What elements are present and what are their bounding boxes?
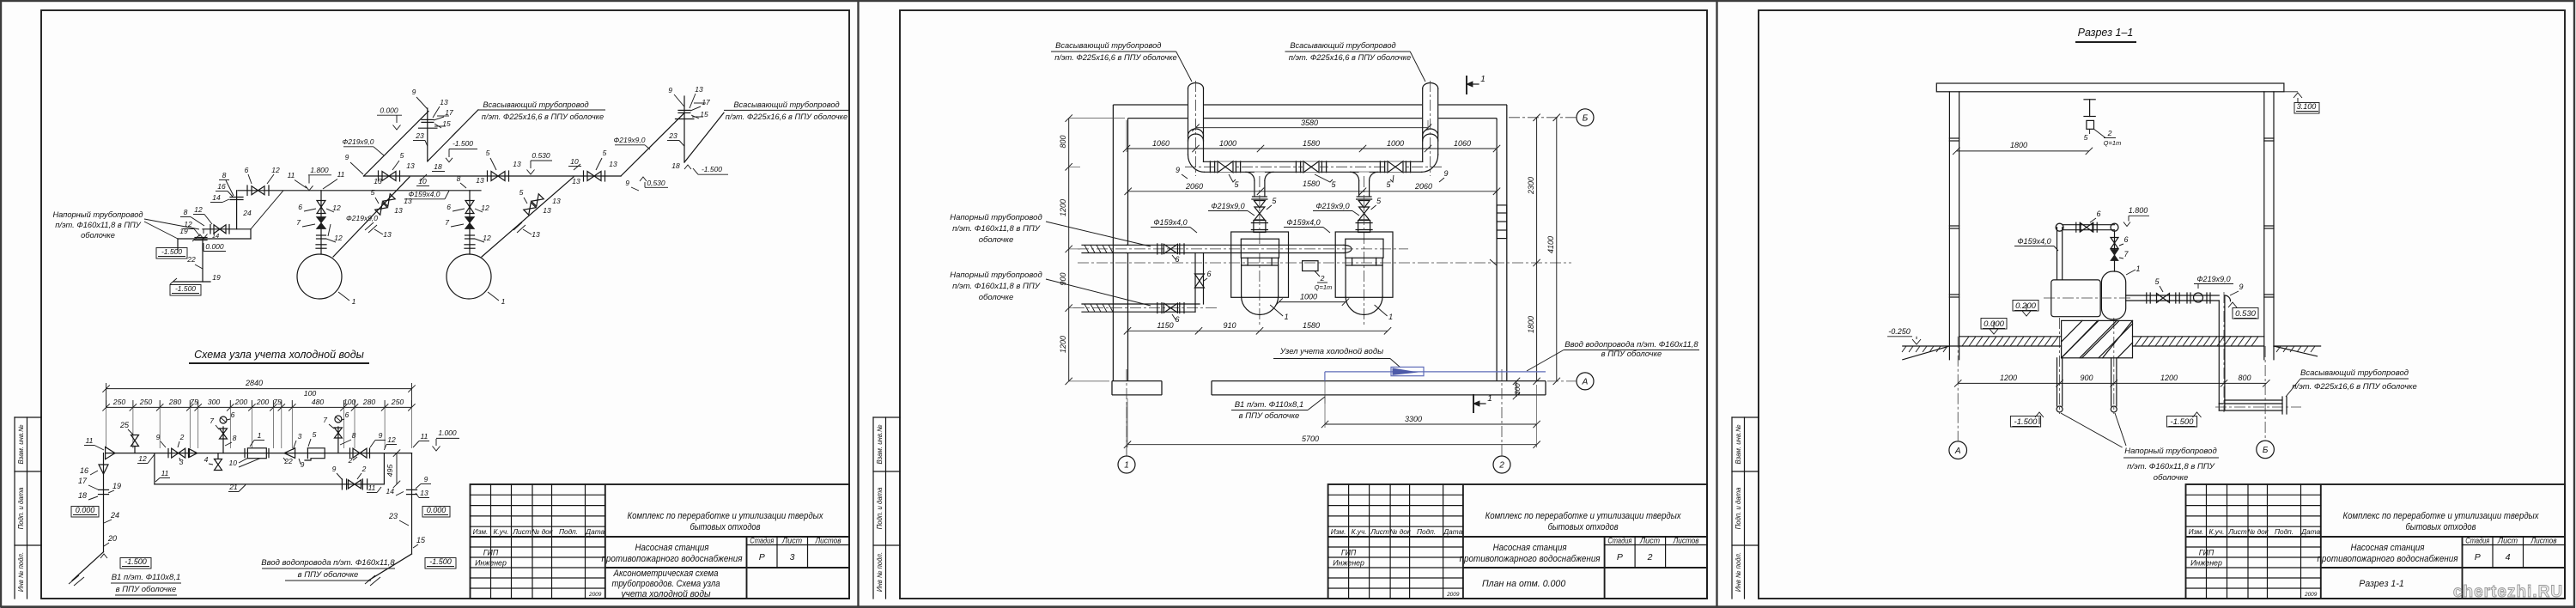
svg-text:1200: 1200 xyxy=(2160,374,2178,382)
svg-text:5700: 5700 xyxy=(1302,435,1319,443)
svg-text:13: 13 xyxy=(394,206,403,215)
svg-text:6: 6 xyxy=(1175,315,1179,324)
svg-text:1: 1 xyxy=(1285,313,1289,321)
svg-text:17: 17 xyxy=(78,477,88,485)
svg-text:800: 800 xyxy=(1059,135,1067,148)
svg-text:№ док: № док xyxy=(532,527,553,536)
svg-text:2: 2 xyxy=(179,433,185,441)
svg-text:Дата: Дата xyxy=(1443,527,1462,536)
svg-text:9: 9 xyxy=(345,153,349,161)
svg-text:15: 15 xyxy=(442,119,451,128)
svg-text:12: 12 xyxy=(138,454,147,463)
svg-text:280: 280 xyxy=(362,398,376,406)
svg-text:Узел учета холодной воды: Узел учета холодной воды xyxy=(1279,347,1383,356)
svg-text:9: 9 xyxy=(156,433,161,441)
svg-text:-1.500: -1.500 xyxy=(175,284,196,293)
svg-text:трубопроводов. Схема узла: трубопроводов. Схема узла xyxy=(612,579,720,589)
svg-text:13: 13 xyxy=(476,176,484,185)
svg-text:Схема узла учета холодной воды: Схема узла учета холодной воды xyxy=(194,349,364,361)
svg-text:900: 900 xyxy=(1059,272,1067,285)
svg-text:8: 8 xyxy=(222,171,227,179)
svg-text:9: 9 xyxy=(1443,169,1448,178)
svg-text:20: 20 xyxy=(107,534,117,543)
svg-text:15: 15 xyxy=(416,536,426,544)
svg-text:Насосная станция: Насосная станция xyxy=(1493,543,1567,553)
svg-text:12: 12 xyxy=(332,204,341,212)
svg-text:13: 13 xyxy=(532,230,540,239)
svg-text:Б: Б xyxy=(2263,446,2269,455)
svg-text:0.000: 0.000 xyxy=(380,106,398,115)
svg-text:900: 900 xyxy=(2080,374,2093,382)
svg-text:12: 12 xyxy=(194,205,203,214)
svg-text:0.000: 0.000 xyxy=(427,506,447,514)
svg-text:оболочке: оболочке xyxy=(2154,473,2189,483)
svg-text:75: 75 xyxy=(190,398,198,406)
svg-text:Всасывающий трубопровод: Всасывающий трубопровод xyxy=(1055,41,1161,50)
svg-text:Ф159х4,0: Ф159х4,0 xyxy=(408,190,440,198)
svg-text:Q=1m: Q=1m xyxy=(2104,139,2122,147)
svg-text:-1.500: -1.500 xyxy=(453,139,473,148)
svg-text:2060: 2060 xyxy=(1414,182,1432,191)
svg-text:13: 13 xyxy=(695,85,703,94)
svg-text:в ППУ оболочке: в ППУ оболочке xyxy=(1601,350,1662,359)
svg-text:2300: 2300 xyxy=(1527,177,1535,195)
svg-text:5: 5 xyxy=(519,188,524,197)
svg-text:6: 6 xyxy=(2096,210,2100,218)
svg-text:Стадия: Стадия xyxy=(1607,537,1631,545)
svg-text:3300: 3300 xyxy=(1405,415,1422,423)
svg-text:ГИП: ГИП xyxy=(2199,549,2215,557)
svg-text:13: 13 xyxy=(552,197,561,205)
svg-text:п/эт. Ф225х16,6 в ППУ оболочке: п/эт. Ф225х16,6 в ППУ оболочке xyxy=(1289,53,1411,62)
svg-text:24: 24 xyxy=(242,209,252,217)
svg-text:-1.500: -1.500 xyxy=(429,557,452,566)
svg-text:п/эт. Ф160х11,8 в ППУ: п/эт. Ф160х11,8 в ППУ xyxy=(952,224,1041,234)
svg-text:Подп. и дата: Подп. и дата xyxy=(17,487,25,529)
svg-text:1.000: 1.000 xyxy=(438,429,457,437)
svg-text:Взам. инв.№: Взам. инв.№ xyxy=(1735,424,1742,464)
svg-text:23: 23 xyxy=(415,131,424,140)
svg-text:1: 1 xyxy=(2136,264,2140,273)
svg-text:2: 2 xyxy=(361,465,367,473)
svg-text:4: 4 xyxy=(2506,552,2511,562)
svg-text:Ф219х9,0: Ф219х9,0 xyxy=(1211,202,1244,210)
svg-text:19: 19 xyxy=(179,227,188,235)
svg-text:Подп. и дата: Подп. и дата xyxy=(876,487,884,529)
svg-text:Ввод водопровода п/эт. Ф160х11: Ввод водопровода п/эт. Ф160х11,8 xyxy=(1564,340,1698,350)
svg-text:Инв № подл.: Инв № подл. xyxy=(876,552,884,592)
svg-text:1200: 1200 xyxy=(2000,374,2017,382)
svg-text:22: 22 xyxy=(283,457,293,465)
svg-text:2: 2 xyxy=(1647,552,1653,562)
svg-text:0.000: 0.000 xyxy=(205,242,224,251)
svg-text:1: 1 xyxy=(1124,461,1129,471)
svg-text:12: 12 xyxy=(483,234,491,242)
svg-text:3: 3 xyxy=(790,552,795,562)
svg-text:Р: Р xyxy=(1617,552,1623,562)
svg-text:1: 1 xyxy=(352,297,356,306)
svg-text:1: 1 xyxy=(501,297,506,306)
svg-text:п/эт. Ф225х16,6 в ППУ оболочке: п/эт. Ф225х16,6 в ППУ оболочке xyxy=(482,112,604,121)
svg-text:Ф159х4,0: Ф159х4,0 xyxy=(1153,218,1187,227)
svg-text:19: 19 xyxy=(212,273,221,282)
svg-text:7: 7 xyxy=(323,416,327,424)
svg-text:Напорный трубопровод: Напорный трубопровод xyxy=(950,271,1042,280)
svg-text:7: 7 xyxy=(210,416,214,425)
svg-text:1000: 1000 xyxy=(1387,139,1404,148)
svg-text:4100: 4100 xyxy=(1546,236,1555,253)
svg-text:8: 8 xyxy=(352,431,356,440)
svg-text:6: 6 xyxy=(2123,235,2128,244)
svg-text:9: 9 xyxy=(301,460,305,469)
svg-text:1150: 1150 xyxy=(1157,321,1173,330)
svg-text:18: 18 xyxy=(434,162,442,171)
svg-text:1580: 1580 xyxy=(1303,139,1320,148)
svg-text:Лист: Лист xyxy=(1639,537,1661,545)
svg-text:0,530: 0,530 xyxy=(647,179,665,187)
svg-text:9: 9 xyxy=(424,475,428,483)
svg-text:Ввод водопровода п/эт. Ф160х11: Ввод водопровода п/эт. Ф160х11,8 xyxy=(261,558,395,568)
svg-text:Инженер: Инженер xyxy=(1333,559,1364,568)
svg-text:бытовых отходов: бытовых отходов xyxy=(2406,522,2476,532)
svg-text:ГИП: ГИП xyxy=(483,549,499,557)
svg-text:24: 24 xyxy=(110,511,119,520)
svg-text:23: 23 xyxy=(388,512,398,520)
svg-text:0.000: 0.000 xyxy=(76,506,95,514)
svg-text:Изм.: Изм. xyxy=(473,527,489,536)
svg-text:-1.500: -1.500 xyxy=(161,247,182,256)
svg-text:6: 6 xyxy=(1175,255,1179,264)
svg-text:13: 13 xyxy=(406,161,415,170)
svg-text:№ док: № док xyxy=(2247,527,2269,536)
svg-text:Б: Б xyxy=(1583,113,1589,123)
svg-text:300: 300 xyxy=(208,398,221,406)
svg-text:1.800: 1.800 xyxy=(310,166,329,174)
svg-text:Всасывающий трубопровод: Всасывающий трубопровод xyxy=(2300,368,2409,378)
svg-text:11: 11 xyxy=(86,436,94,445)
svg-text:Изм.: Изм. xyxy=(2189,527,2204,536)
svg-text:Ф219х9,0: Ф219х9,0 xyxy=(613,136,645,144)
svg-text:10: 10 xyxy=(570,157,579,166)
svg-text:22: 22 xyxy=(186,255,196,264)
svg-text:9: 9 xyxy=(668,86,672,94)
svg-text:480: 480 xyxy=(312,398,325,406)
svg-text:Инв № подл.: Инв № подл. xyxy=(17,552,25,592)
svg-text:10: 10 xyxy=(229,459,238,467)
svg-text:300: 300 xyxy=(1514,383,1522,395)
svg-text:16: 16 xyxy=(80,466,88,475)
svg-text:Ф219х9,0: Ф219х9,0 xyxy=(342,137,374,146)
svg-text:6: 6 xyxy=(447,203,451,211)
svg-text:0.530: 0.530 xyxy=(532,151,550,160)
svg-text:Подп. и дата: Подп. и дата xyxy=(1735,487,1742,529)
svg-text:13: 13 xyxy=(383,230,392,239)
svg-text:Напорный трубопровод: Напорный трубопровод xyxy=(950,213,1042,222)
svg-text:4: 4 xyxy=(204,455,209,464)
svg-text:Ф219х9,0: Ф219х9,0 xyxy=(1315,202,1349,210)
svg-text:К.уч.: К.уч. xyxy=(494,527,509,536)
svg-text:495: 495 xyxy=(386,465,394,477)
svg-text:Дата: Дата xyxy=(585,527,605,536)
svg-text:1800: 1800 xyxy=(1527,316,1535,333)
svg-text:7: 7 xyxy=(296,218,301,227)
svg-text:5: 5 xyxy=(371,188,375,197)
svg-text:13: 13 xyxy=(420,489,428,497)
svg-text:Листов: Листов xyxy=(815,537,841,545)
svg-text:11: 11 xyxy=(337,170,345,179)
svg-text:оболочке: оболочке xyxy=(979,235,1014,245)
svg-text:13: 13 xyxy=(440,98,448,106)
svg-text:14: 14 xyxy=(212,193,221,202)
svg-text:бытовых отходов: бытовых отходов xyxy=(1548,522,1619,532)
svg-text:п/эт. Ф160х11,8 в ППУ: п/эт. Ф160х11,8 в ППУ xyxy=(2127,462,2215,471)
svg-text:12: 12 xyxy=(271,166,280,174)
svg-text:1060: 1060 xyxy=(1152,139,1170,148)
svg-text:9: 9 xyxy=(1176,166,1180,174)
svg-text:100: 100 xyxy=(304,389,317,398)
svg-text:17: 17 xyxy=(445,108,453,117)
svg-text:Напорный трубопровод: Напорный трубопровод xyxy=(2124,447,2216,456)
svg-text:2009: 2009 xyxy=(2304,592,2318,598)
svg-text:п/эт. Ф225х16,6 в ППУ оболочке: п/эт. Ф225х16,6 в ППУ оболочке xyxy=(2292,382,2417,392)
svg-text:Инженер: Инженер xyxy=(475,559,507,568)
svg-text:3580: 3580 xyxy=(1301,119,1318,127)
svg-text:2009: 2009 xyxy=(1446,592,1460,598)
svg-text:1: 1 xyxy=(1388,313,1393,321)
svg-text:6: 6 xyxy=(245,166,249,174)
svg-text:Q=1m: Q=1m xyxy=(1315,283,1333,291)
svg-text:chertezhi.RU: chertezhi.RU xyxy=(2453,583,2563,601)
svg-text:12: 12 xyxy=(481,204,489,212)
svg-text:18: 18 xyxy=(78,491,87,500)
svg-text:13: 13 xyxy=(374,177,382,185)
svg-text:6: 6 xyxy=(1206,270,1211,278)
svg-text:Всасывающий трубопровод: Всасывающий трубопровод xyxy=(733,100,839,109)
svg-text:910: 910 xyxy=(1223,321,1236,330)
svg-text:Лист: Лист xyxy=(1370,527,1388,536)
svg-text:Подп.: Подп. xyxy=(2275,527,2293,536)
svg-text:200: 200 xyxy=(234,398,248,406)
svg-text:2: 2 xyxy=(1320,274,1325,283)
svg-text:13: 13 xyxy=(572,177,580,185)
svg-text:А: А xyxy=(1582,377,1589,386)
svg-text:Инв № подл.: Инв № подл. xyxy=(1735,552,1742,592)
svg-text:1000: 1000 xyxy=(1300,293,1317,301)
svg-text:250: 250 xyxy=(112,398,126,406)
svg-text:К.уч.: К.уч. xyxy=(1352,527,1367,536)
svg-text:75: 75 xyxy=(273,398,282,406)
svg-text:14: 14 xyxy=(386,487,395,496)
svg-text:5: 5 xyxy=(603,149,607,157)
svg-text:800: 800 xyxy=(2238,374,2251,382)
svg-text:5: 5 xyxy=(400,151,404,160)
svg-text:2060: 2060 xyxy=(1185,182,1203,191)
svg-text:7: 7 xyxy=(445,218,449,227)
svg-text:Изм.: Изм. xyxy=(1331,527,1346,536)
svg-text:11: 11 xyxy=(161,469,169,477)
svg-text:в ППУ оболочке: в ППУ оболочке xyxy=(116,585,177,594)
svg-text:противопожарного водоснабжения: противопожарного водоснабжения xyxy=(1460,554,1601,564)
svg-text:21: 21 xyxy=(228,483,238,491)
svg-text:11: 11 xyxy=(421,432,428,441)
svg-text:Лист: Лист xyxy=(512,527,531,536)
svg-text:Аксонометрическая схема: Аксонометрическая схема xyxy=(613,568,719,579)
svg-text:Комплекс по переработке и утил: Комплекс по переработке и утилизации тве… xyxy=(2343,511,2540,521)
svg-text:5: 5 xyxy=(486,149,490,157)
svg-text:9: 9 xyxy=(625,179,629,187)
svg-text:Лист: Лист xyxy=(2497,537,2518,545)
svg-text:Листов: Листов xyxy=(1673,537,1699,545)
svg-text:2: 2 xyxy=(348,456,353,465)
svg-text:Стадия: Стадия xyxy=(2465,537,2489,545)
svg-text:8: 8 xyxy=(184,208,188,216)
svg-text:Стадия: Стадия xyxy=(750,537,774,545)
svg-text:2009: 2009 xyxy=(588,592,602,598)
svg-text:2: 2 xyxy=(1498,461,1504,471)
svg-text:2: 2 xyxy=(2107,129,2112,137)
svg-text:8: 8 xyxy=(233,434,237,442)
svg-text:6: 6 xyxy=(298,203,302,211)
svg-text:ГИП: ГИП xyxy=(1341,549,1357,557)
svg-text:В1 п/эт. Ф110х8,1: В1 п/эт. Ф110х8,1 xyxy=(1235,400,1304,410)
svg-text:1000: 1000 xyxy=(1219,139,1236,148)
svg-text:12: 12 xyxy=(334,234,343,242)
svg-text:9: 9 xyxy=(2239,283,2243,291)
svg-text:Всасывающий трубопровод: Всасывающий трубопровод xyxy=(483,100,588,109)
svg-text:17: 17 xyxy=(702,98,710,106)
svg-text:-1.500: -1.500 xyxy=(702,165,722,173)
svg-text:200: 200 xyxy=(256,398,270,406)
svg-text:11: 11 xyxy=(288,171,295,179)
svg-text:Разрез 1-1: Разрез 1-1 xyxy=(2359,579,2404,589)
svg-text:бытовых отходов: бытовых отходов xyxy=(690,522,761,532)
svg-text:1.800: 1.800 xyxy=(2129,206,2148,215)
svg-text:Дата: Дата xyxy=(2300,527,2320,536)
svg-text:Разрез 1–1: Разрез 1–1 xyxy=(2078,27,2134,39)
svg-text:1580: 1580 xyxy=(1303,179,1320,188)
svg-text:1060: 1060 xyxy=(1454,139,1471,148)
svg-text:Инженер: Инженер xyxy=(2190,559,2222,568)
svg-text:3.100: 3.100 xyxy=(2297,102,2317,111)
svg-text:оболочке: оболочке xyxy=(81,231,115,240)
svg-text:Напорный трубопровод: Напорный трубопровод xyxy=(52,210,143,219)
svg-text:13: 13 xyxy=(609,160,617,168)
svg-text:Комплекс по переработке и утил: Комплекс по переработке и утилизации тве… xyxy=(628,511,824,521)
svg-text:6: 6 xyxy=(231,410,235,419)
svg-text:Насосная станция: Насосная станция xyxy=(635,543,709,553)
svg-text:5: 5 xyxy=(313,430,317,439)
svg-text:Ф219х9,0: Ф219х9,0 xyxy=(2196,275,2230,283)
svg-text:в ППУ оболочке: в ППУ оболочке xyxy=(298,570,359,580)
svg-text:в ППУ оболочке: в ППУ оболочке xyxy=(1239,411,1300,421)
svg-text:-1.500: -1.500 xyxy=(2171,417,2195,427)
svg-text:250: 250 xyxy=(139,398,153,406)
svg-text:Ф159х4,0: Ф159х4,0 xyxy=(1286,218,1320,227)
svg-text:9: 9 xyxy=(332,465,337,473)
svg-text:В1 п/эт. Ф110х8,1: В1 п/эт. Ф110х8,1 xyxy=(112,573,181,582)
svg-text:250: 250 xyxy=(391,398,404,406)
svg-text:11: 11 xyxy=(368,483,376,492)
svg-text:1580: 1580 xyxy=(1303,321,1320,330)
svg-text:0.530: 0.530 xyxy=(2235,309,2256,319)
svg-text:6: 6 xyxy=(345,410,349,419)
svg-text:п/эт. Ф160х11,8 в ППУ: п/эт. Ф160х11,8 в ППУ xyxy=(952,282,1041,291)
svg-text:План на отм. 0.000: План на отм. 0.000 xyxy=(1482,579,1565,589)
svg-text:15: 15 xyxy=(700,110,708,119)
svg-text:100: 100 xyxy=(343,398,356,406)
svg-text:0.000: 0.000 xyxy=(1984,319,2004,329)
svg-text:19: 19 xyxy=(112,482,121,490)
svg-text:п/эт. Ф160х11,8 в ППУ: п/эт. Ф160х11,8 в ППУ xyxy=(55,221,142,229)
svg-text:Лист: Лист xyxy=(781,537,803,545)
svg-text:Всасывающий трубопровод: Всасывающий трубопровод xyxy=(1290,41,1395,50)
svg-text:Комплекс по переработке и утил: Комплекс по переработке и утилизации тве… xyxy=(1485,511,1682,521)
svg-text:18: 18 xyxy=(671,161,680,170)
svg-text:Р: Р xyxy=(759,552,765,562)
svg-text:13: 13 xyxy=(543,206,551,215)
svg-text:1200: 1200 xyxy=(1059,199,1067,216)
svg-text:учета холодной воды: учета холодной воды xyxy=(621,589,711,599)
svg-text:Листов: Листов xyxy=(2530,537,2557,545)
svg-text:Подп.: Подп. xyxy=(1417,527,1436,536)
svg-text:Лист: Лист xyxy=(2227,527,2246,536)
svg-text:1: 1 xyxy=(1487,394,1492,404)
svg-text:280: 280 xyxy=(168,398,182,406)
svg-text:8: 8 xyxy=(457,174,461,183)
svg-text:5: 5 xyxy=(2084,133,2088,142)
svg-text:1200: 1200 xyxy=(1059,336,1067,353)
svg-text:1: 1 xyxy=(1480,75,1485,84)
svg-text:-1.500: -1.500 xyxy=(125,557,147,566)
svg-text:противопожарного водоснабжения: противопожарного водоснабжения xyxy=(602,554,743,564)
svg-text:0.200: 0.200 xyxy=(2015,301,2036,311)
svg-text:п/эт. Ф225х16,6 в ППУ оболочке: п/эт. Ф225х16,6 в ППУ оболочке xyxy=(726,112,848,121)
svg-text:Взам. инв.№: Взам. инв.№ xyxy=(17,424,25,464)
svg-text:Взам. инв.№: Взам. инв.№ xyxy=(876,424,884,464)
svg-text:23: 23 xyxy=(668,131,677,140)
svg-text:1: 1 xyxy=(258,431,262,440)
svg-text:оболочке: оболочке xyxy=(979,293,1014,302)
svg-text:1800: 1800 xyxy=(2010,141,2027,149)
svg-text:13: 13 xyxy=(513,160,521,168)
svg-text:№ док: № док xyxy=(1389,527,1411,536)
svg-text:9: 9 xyxy=(379,431,383,440)
svg-text:-1.500: -1.500 xyxy=(2014,417,2038,427)
svg-text:9: 9 xyxy=(412,88,416,96)
svg-text:-0.250: -0.250 xyxy=(1888,327,1911,336)
svg-text:Р: Р xyxy=(2475,552,2481,562)
svg-text:12: 12 xyxy=(387,435,396,444)
svg-text:К.уч.: К.уч. xyxy=(2209,527,2225,536)
svg-text:п/эт. Ф225х16,6 в ППУ оболочке: п/эт. Ф225х16,6 в ППУ оболочке xyxy=(1054,53,1176,62)
svg-text:3: 3 xyxy=(298,432,302,441)
svg-text:противопожарного водоснабжения: противопожарного водоснабжения xyxy=(2318,554,2458,564)
svg-text:16: 16 xyxy=(217,182,226,191)
svg-text:Подп.: Подп. xyxy=(559,527,578,536)
svg-text:25: 25 xyxy=(119,421,130,429)
svg-text:А: А xyxy=(1954,447,1961,456)
svg-text:2840: 2840 xyxy=(245,379,263,387)
svg-text:Насосная станция: Насосная станция xyxy=(2351,543,2425,553)
svg-text:Ф159х4,0: Ф159х4,0 xyxy=(2017,237,2050,246)
